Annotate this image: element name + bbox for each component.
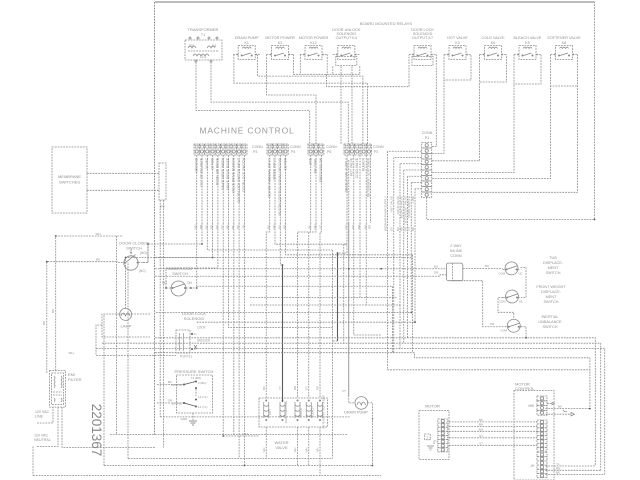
wire P4 drops with colour labels [269,155,271,223]
wire P2 pin3 down [354,223,382,335]
svg-text:UNBALANCE: UNBALANCE [538,320,562,324]
svg-text:NC: NC [519,300,523,304]
svg-text:K3: K3 [455,41,459,45]
EMI filter box [50,371,66,408]
svg-text:WH: WH [304,448,308,453]
svg-text:GY: GY [390,227,394,231]
EMI filter coils [53,376,62,402]
svg-text:P4: P4 [291,150,295,154]
svg-text:14 (RD): 14 (RD) [191,376,201,380]
wire P1 pin5 to K8 lead [432,86,551,179]
connector CONN P2 [344,144,360,155]
svg-text:P7: P7 [160,205,165,209]
wire bottom rail 476 [33,475,381,477]
ground motor [427,441,438,450]
door lock solenoid [176,330,197,353]
wire K4 coil down [340,66,342,144]
connector CONN P4 [267,144,288,155]
wire P3 pin2 to door closed sw top [148,223,202,244]
svg-text:MOTOR POWER: MOTOR POWER [299,36,329,40]
svg-text:BK: BK [51,309,55,313]
svg-text:SWITCH: SWITCH [543,325,558,329]
wire P3 pin5 to door lock NO [166,223,218,288]
wire P4 pin3 dark to water valve coil2 [280,223,282,265]
svg-text:PRESSURE SWITCH: PRESSURE SWITCH [175,369,214,374]
water valve coils [264,400,323,422]
svg-text:120: 120 [188,44,194,48]
svg-text:MW: MW [528,404,534,408]
svg-text:DETERGENT SOFTENER: DETERGENT SOFTENER [322,395,326,428]
wire rail 343 [102,343,601,470]
wire membrane to P7 upper [87,172,159,174]
switch tub displacement [503,262,521,275]
svg-text:HOT VALVE: HOT VALVE [350,157,354,176]
wire left vert 116 [115,236,117,435]
wire P4 pin4 right turn [286,223,413,255]
wire motor control JH out 2 [546,469,601,471]
wire white trunk EMI up [56,236,122,371]
svg-text:BOARD MOUNTED RELAYS: BOARD MOUNTED RELAYS [360,21,412,26]
svg-text:BU: BU [485,264,489,268]
svg-text:2201367: 2201367 [89,404,104,457]
svg-text:DRAIN PUMP: DRAIN PUMP [344,411,368,415]
svg-text:(NO): (NO) [140,251,147,255]
svg-text:K1: K1 [244,41,248,45]
svg-text:120 VAC: 120 VAC [34,434,49,438]
svg-text:ON: ON [187,281,192,285]
wire jungle vert 332 down rail [332,250,334,459]
svg-text:K2: K2 [278,41,282,45]
svg-text:HOT VALVE: HOT VALVE [447,36,468,40]
wire membrane to P7 lower [87,189,159,191]
svg-text:P6: P6 [327,150,331,154]
wire jungle horiz 254 right [412,255,414,353]
wire pressure sw left pin upper [157,384,183,386]
wire inertial out down [521,327,526,338]
svg-text:WH: WH [293,448,297,453]
wire outer border top [155,1,595,3]
svg-text:CONN: CONN [422,131,433,135]
svg-text:8.5: 8.5 [212,44,217,48]
wire K6 leads bus [480,55,507,83]
svg-text:HOT: HOT [268,409,272,415]
wire P1 fan7 down left [197,189,415,322]
svg-text:COM: COM [500,329,507,333]
wire P1 left fan stubs [388,150,422,152]
switch inertial unbalance [505,319,523,332]
drain pump [355,397,368,410]
wire P6 pin2 to water valve coil3 [298,223,317,398]
relay K6 COLD VALVE [480,46,507,60]
svg-text:OUTPUT K4: OUTPUT K4 [336,36,357,40]
svg-text:12 (YL): 12 (YL) [198,405,208,409]
water valve box [259,398,328,427]
svg-text:CONTROL: CONTROL [515,386,535,391]
relay K3 HOT VALVE [444,46,471,60]
svg-text:COLD VALVE: COLD VALVE [355,157,359,178]
wire P2 drops with colour labels [346,155,348,223]
svg-text:LINE: LINE [35,415,44,419]
wire outer border left [154,2,156,435]
wire door closed NC right [143,244,148,263]
wire front COM jog [498,298,514,319]
svg-text:LAMP: LAMP [121,324,132,329]
wire P1 pin4 to K5 lead [432,84,514,173]
svg-text:BLEACH: BLEACH [310,406,314,417]
svg-text:MEMBRANE: MEMBRANE [58,174,81,179]
svg-text:K6: K6 [491,41,495,45]
svg-text:K12: K12 [310,41,316,45]
wire K3 leads bus [444,55,471,81]
svg-text:WH: WH [243,432,248,436]
svg-text:GRN: GRN [181,417,188,421]
wire bottom rail left vert [32,447,34,476]
wire bottom rail 435 [110,434,348,436]
motor thermal box [425,434,431,440]
svg-text:WH: WH [262,448,266,453]
pressure switch box [177,375,213,413]
wire jungle horiz 286 [197,285,393,287]
svg-text:WH: WH [96,232,101,236]
wire motor control MW arrow [546,413,572,415]
wire conn to tub switch [463,267,503,269]
wire bus tap right [327,55,410,87]
pressure switch contacts [171,376,207,409]
wire motor control JH out 3 [546,474,605,476]
svg-text:(NC): (NC) [139,269,146,273]
wire bottom rail 466 [104,465,373,467]
lamp box [102,314,150,337]
wire pressure sw to ground [195,389,197,396]
wire P1 fan5 down [407,176,409,338]
wire P1 pin1 to K7 right lead [432,66,436,147]
svg-text:BN: BN [479,423,483,427]
motor connector [438,419,448,452]
wire P1 fan1 down rail [388,151,590,370]
wire K8 leads bus [551,55,578,87]
svg-text:HOT VALVE: HOT VALVE [390,196,394,212]
wire P3 drops with colour labels [196,155,198,223]
svg-text:SWITCHES: SWITCHES [59,180,80,185]
svg-text:JH: JH [530,464,535,468]
switch door closed [118,244,148,270]
wire 120vac line to EMI [37,407,53,423]
wire K1 left lead down [234,55,368,145]
svg-text:COM: COM [498,272,505,276]
wire K7 right lead down [435,55,437,67]
wire P1 fan4 down [403,170,405,343]
wire transformer left lead down [196,62,310,144]
wire K5 leads bus [514,55,541,85]
svg-text:CONN: CONN [450,254,461,258]
svg-text:MOTOR: MOTOR [425,404,440,409]
svg-text:BK: BK [168,380,172,384]
svg-text:T1: T1 [201,33,205,37]
wire P1 fan3 down [399,164,401,305]
svg-text:BN: BN [383,227,387,231]
wire drain pump feed [349,160,355,403]
wire rail 353 [155,353,590,409]
wire jungle horiz 250 [270,249,333,251]
svg-text:BLEACH VALVE: BLEACH VALVE [514,36,542,40]
relay K5 BLEACH VALVE [514,46,541,60]
wire P1 pin3 to K6 lead [432,82,480,161]
svg-text:SOLENOID: SOLENOID [184,316,205,321]
wire P2 pin4 down [360,223,398,298]
svg-text:NO: NO [162,281,167,285]
wire P6 drops with colour labels [310,155,312,223]
wire P1 bottom to top border [427,2,595,220]
wire K12 left lead stub [299,55,301,75]
wire lamp feed left [96,325,176,355]
svg-text:120 VAC: 120 VAC [35,410,50,414]
wire conn feed lower [155,275,446,276]
svg-text:VT: VT [342,389,346,393]
svg-text:INERTIAL: INERTIAL [541,315,558,319]
wire jungle horiz 244 ext [344,243,347,245]
relay K1 DRAIN PUMP [233,46,260,60]
wire P3 pin6 down deep [223,223,259,436]
svg-text:2 WAY: 2 WAY [450,244,462,248]
svg-text:MOTOR POWER: MOTOR POWER [265,36,295,40]
svg-text:CONN: CONN [373,145,384,149]
switch front weight displacement [503,290,521,303]
svg-text:WH: WH [316,448,320,453]
wire jungle horiz 257 [155,257,413,259]
svg-text:PK: PK [316,386,320,390]
connector CONN P3 [194,144,247,155]
wire P4 pin2 right turn [275,223,347,244]
wire water valve outs [265,427,267,459]
wire P6 pin3 to water valve coil5 [320,223,321,398]
svg-text:SWITCH: SWITCH [544,300,559,304]
motor control JH strip [537,453,547,478]
svg-text:MENT: MENT [548,266,559,270]
wire jungle vert 343 jog [343,244,345,344]
wire rail 338 [155,338,595,466]
svg-text:16-COM: 16-COM [171,383,183,387]
svg-text:BU: BU [262,386,266,390]
svg-text:P1: P1 [425,136,429,140]
wire pressure sw left pin lower [157,402,183,404]
wire P3 pin3 jungle [207,223,269,250]
motor box [419,411,449,460]
wire MW internal arrow [547,403,552,405]
svg-text:OR: OR [368,225,372,229]
svg-text:12.5: 12.5 [200,55,206,59]
svg-text:K5: K5 [525,41,529,45]
wire jungle horiz 297 left [250,297,360,299]
svg-text:SWITCH: SWITCH [546,271,561,275]
membrane switches box [52,147,87,213]
ground pressure switch [189,421,197,425]
svg-text:DRAIN PUMP: DRAIN PUMP [235,36,259,40]
connector CONN P6 [308,144,324,155]
svg-text:P10 P11: P10 P11 [180,355,192,359]
svg-text:NEUTRAL: NEUTRAL [34,438,51,442]
wire black trunk EMI up [47,262,118,373]
svg-text:GY: GY [304,386,308,390]
svg-text:VT: VT [479,441,483,445]
wire K4 left lead stub [332,66,334,74]
svg-text:11-CNO: 11-CNO [172,402,183,406]
svg-text:FILTER: FILTER [68,377,82,382]
svg-text:CONN: CONN [326,145,337,149]
wire bottom rail 458 [128,458,333,460]
wire P3 pin7 down mid [229,223,333,328]
svg-text:INLINE: INLINE [450,249,463,253]
svg-text:2 (BU): 2 (BU) [198,381,206,385]
wire P1 fan2 down [393,158,395,353]
svg-text:DISPLACE-: DISPLACE- [543,261,564,265]
svg-text:DISPLACE-: DISPLACE- [541,290,562,294]
wire P7 pin1 down [159,200,161,417]
wire conn lower to inertial [453,281,505,327]
svg-text:SOFTENER VALVE: SOFTENER VALVE [547,36,581,40]
lamp [120,308,132,320]
relay K7 DOOR LOCK SOLENOID OUTPUT [409,46,436,66]
svg-text:P3: P3 [253,150,257,154]
wire bottom rail 417 [160,416,350,418]
wire transformer right lead down [211,62,348,144]
transformer T1 [185,37,222,62]
switch door lock [166,281,191,296]
wire 120vac neutral to EMI [37,407,58,447]
relay K8 SOFTENER VALVE [551,46,578,60]
svg-text:NEUTRAL: NEUTRAL [314,158,318,174]
svg-text:BK: BK [556,471,560,475]
connector 2 way inline [446,263,462,281]
svg-text:BLEACH: BLEACH [361,157,365,171]
svg-text:GY: GY [479,434,483,438]
svg-text:COLD PREWASH: COLD PREWASH [284,401,288,424]
svg-text:FRONT WEIGHT: FRONT WEIGHT [536,285,566,289]
wire P4 pin1 to water valve coil1 [266,223,269,398]
svg-text:SWITCH: SWITCH [126,246,142,251]
svg-text:SWITCH: SWITCH [172,271,188,276]
svg-text:K8: K8 [562,41,566,45]
wire conn feed upper [155,268,446,270]
wire P2 pin1 dark down [338,223,348,253]
wire drain pump out [368,403,373,466]
svg-text:COLD VALVE: COLD VALVE [481,36,505,40]
wire EMI bottom to rail [62,407,155,448]
svg-text:BK: BK [96,258,100,262]
wire P1 fan3b down [399,305,401,349]
svg-text:BK: BK [558,405,562,409]
wire P2 pin5 down [366,223,400,305]
svg-text:TUB: TUB [549,256,557,260]
svg-text:COLD: COLD [299,408,303,416]
svg-text:P2: P2 [374,150,378,154]
svg-text:OUTPUT K7: OUTPUT K7 [412,36,433,40]
wire K4 coil down 2 [351,66,353,144]
svg-text:BK: BK [42,321,46,325]
svg-text:DRAIN PUMP SUPPLY: DRAIN PUMP SUPPLY [344,157,348,192]
svg-text:VALVE: VALVE [275,445,288,450]
svg-text:T: T [427,436,429,440]
svg-text:NC: NC [519,272,523,276]
svg-text:BU: BU [479,427,483,431]
wire rail 348 [96,349,605,475]
wire P1 pin2 to K3 lead [432,80,444,153]
wire motor control MW out [546,408,590,410]
wire P3 pin1 to door lock switch [191,223,197,288]
motor control box [514,391,554,480]
wire P3 pin10 down [243,223,245,466]
motor control MW strip [537,396,547,415]
wire relay common bus [294,55,360,75]
connector P7 [159,163,166,200]
svg-text:WH: WH [69,351,74,355]
wire P1 fan6 down left [155,183,411,313]
svg-text:MACHINE CONTROL: MACHINE CONTROL [199,126,294,136]
wire motor control JH out 1 [546,465,596,467]
svg-text:TRANSFORMER: TRANSFORMER [188,27,219,32]
svg-text:COM: COM [499,300,506,304]
wire P3 pin8 down rail [233,223,235,435]
wire jungle vert 392 mid [392,286,394,352]
motor control main strip [537,420,547,451]
svg-text:LOCK: LOCK [197,326,207,330]
svg-text:MENT: MENT [546,295,557,299]
wire P7 pin2 down [162,200,164,448]
wire P2 pin2 drain feed [348,223,350,397]
wire K1 right lead down [257,55,363,145]
wire K8 right lead down to P1 [432,55,578,193]
wire P6 pin1 down jog [309,223,311,398]
wire motor to motor control bundle [449,421,537,423]
svg-text:14 (YL): 14 (YL) [198,395,208,399]
relay K12 MOTOR POWER [300,46,327,60]
wire K12 right lead stub [326,55,328,75]
wire P3 pin9 down rail [238,223,240,459]
wire K2 left lead down [267,55,317,145]
relay K2 MOTOR POWER [267,46,294,60]
svg-text:CONN: CONN [290,145,301,149]
svg-text:DETERGENT SOFTENER: DETERGENT SOFTENER [367,157,371,197]
svg-text:BN: BN [293,386,297,390]
connector CONN P1 [422,143,432,198]
wire tub NC to front NC [521,267,527,297]
junction dots [55,235,57,237]
svg-text:CONN: CONN [252,145,263,149]
svg-text:BK: BK [479,418,483,422]
wire jungle horiz 305 left [250,304,366,306]
relay K4 DOOR UNLOCK SOLENOID OUTPUT [333,46,360,66]
wire K4 right lead stub [359,66,361,74]
svg-text:UNLOCK: UNLOCK [197,339,211,343]
svg-text:BU: BU [434,265,438,269]
svg-text:VT: VT [278,386,282,390]
svg-text:DRAIN PUMP SUPPLY: DRAIN PUMP SUPPLY [383,196,387,227]
wire P3 pin4 to lamp top [126,223,213,308]
